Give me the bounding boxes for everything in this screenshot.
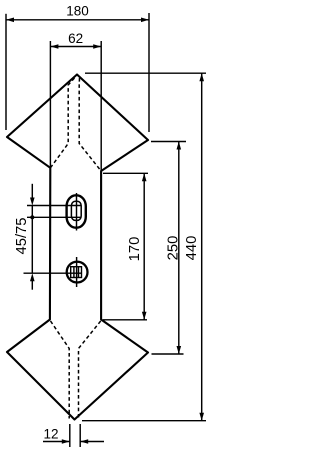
svg-text:170: 170 bbox=[127, 237, 143, 262]
svg-text:62: 62 bbox=[68, 31, 83, 46]
svg-text:12: 12 bbox=[43, 427, 58, 442]
svg-text:250: 250 bbox=[165, 236, 181, 261]
svg-text:440: 440 bbox=[184, 236, 200, 261]
svg-text:180: 180 bbox=[66, 4, 89, 19]
svg-text:45/75: 45/75 bbox=[14, 217, 30, 254]
